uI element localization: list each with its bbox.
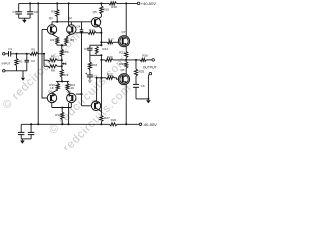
- svg-text:R24: R24: [119, 62, 125, 66]
- svg-text:Q4: Q4: [67, 89, 71, 93]
- svg-text:R2: R2: [31, 48, 35, 52]
- svg-text:R12: R12: [55, 113, 61, 117]
- svg-text:C3: C3: [93, 74, 97, 78]
- svg-text:R9: R9: [64, 73, 68, 77]
- svg-text:R23: R23: [119, 50, 125, 54]
- svg-text:R6: R6: [65, 50, 69, 54]
- svg-text:R22: R22: [111, 118, 117, 122]
- svg-text:R4: R4: [50, 38, 54, 42]
- svg-text:R1: R1: [19, 59, 23, 63]
- svg-text:Q5: Q5: [93, 10, 97, 14]
- svg-text:C2: C2: [31, 59, 35, 63]
- svg-text:C8: C8: [34, 10, 38, 14]
- svg-text:R8: R8: [51, 69, 55, 73]
- svg-text:R26: R26: [142, 54, 148, 58]
- svg-text:R14: R14: [102, 47, 108, 51]
- svg-text:R3: R3: [51, 10, 55, 14]
- svg-text:+40-50V: +40-50V: [141, 1, 157, 6]
- svg-text:R5: R5: [70, 38, 74, 42]
- svg-text:C5: C5: [84, 47, 88, 51]
- svg-text:C7: C7: [12, 10, 16, 14]
- svg-text:R18: R18: [111, 5, 117, 9]
- svg-text:C6: C6: [141, 84, 145, 88]
- svg-text:Q7: Q7: [121, 30, 125, 34]
- svg-text:-40-50V: -40-50V: [143, 122, 158, 127]
- svg-text:R13: R13: [89, 28, 95, 32]
- svg-text:R21: R21: [107, 72, 113, 76]
- svg-text:R20: R20: [107, 55, 113, 59]
- svg-text:Q1: Q1: [49, 16, 53, 20]
- svg-text:R15: R15: [103, 7, 109, 11]
- svg-text:Q6: Q6: [92, 99, 96, 103]
- svg-text:C4: C4: [76, 24, 80, 28]
- svg-text:C1: C1: [8, 47, 12, 51]
- svg-text:Q3: Q3: [48, 89, 52, 93]
- svg-text:R7: R7: [51, 55, 55, 59]
- svg-text:R17: R17: [108, 37, 114, 41]
- svg-text:OUTPUT: OUTPUT: [143, 66, 157, 70]
- svg-text:R16: R16: [92, 63, 98, 67]
- svg-text:Q8: Q8: [120, 68, 124, 72]
- svg-text:Q2: Q2: [68, 16, 72, 20]
- svg-text:R25: R25: [139, 69, 145, 73]
- svg-text:INPUT: INPUT: [2, 62, 11, 66]
- svg-text:R27: R27: [104, 116, 110, 120]
